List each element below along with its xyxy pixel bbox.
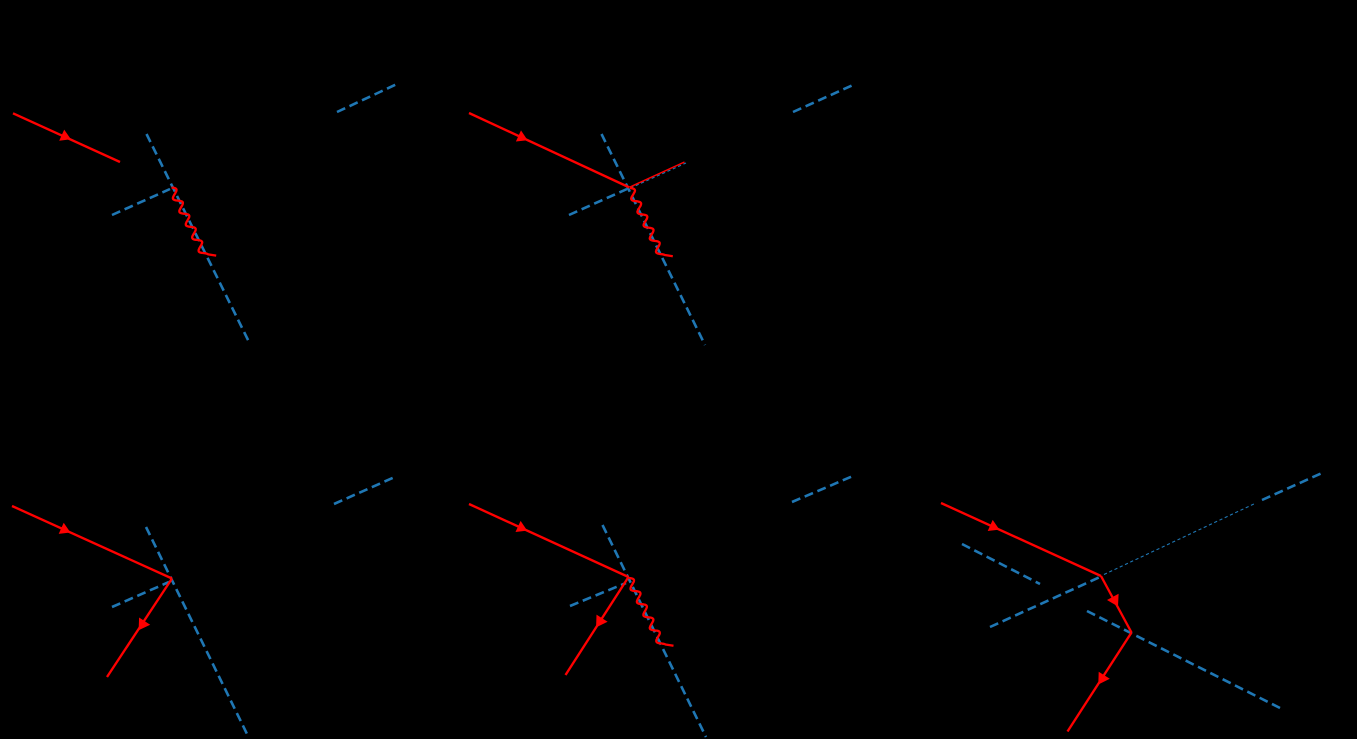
wire: P3 incident beam: [12, 506, 172, 579]
wire: P2 incident beam: [469, 113, 630, 188]
node: P5 internal arrowhead: [1107, 594, 1119, 607]
wire: P4 incident beam: [469, 504, 629, 577]
wire: P5 upper-left parallel dashed: [962, 544, 1040, 584]
node: P1 incident arrowhead: [59, 130, 71, 141]
node: P5 exit arrowhead: [1098, 672, 1110, 685]
wire: P4 reflected beam: [566, 577, 629, 675]
wire: P2 phonon wavy line: [630, 188, 673, 256]
wire: P5 exit beam: [1068, 633, 1132, 732]
node: P4 reflected arrowhead: [596, 615, 608, 628]
wire: P1 phonon wavy line: [172, 188, 217, 256]
node: P2 incident arrowhead: [516, 130, 528, 141]
node: P4 incident arrowhead: [516, 521, 528, 532]
wire: P5 far dashed segment: [1262, 473, 1322, 500]
wire: P4 shallow dashed tail: [570, 583, 626, 606]
node: P3 incident arrowhead: [59, 523, 71, 534]
wire: P1 shallow dashed tail: [112, 189, 170, 215]
wire: P1 incident beam: [13, 113, 120, 162]
wire: P3 steep dashed axis: [146, 527, 248, 736]
wire: P2 thin dashed under scattered beam: [631, 163, 687, 188]
wire: P5 incident beam: [941, 503, 1101, 576]
wire: P5 thin dashed reflection axis: [1104, 503, 1256, 575]
wire: P5 internal beam: [1101, 576, 1132, 633]
node: P3 reflected arrowhead: [139, 618, 151, 631]
node: P5 incident arrowhead: [988, 520, 1000, 531]
wire: P5 lower-right parallel dashed: [1087, 611, 1280, 708]
wire: P2 steep dashed axis: [602, 134, 706, 345]
wire: P1 far dashed segment: [337, 84, 397, 112]
wire: P4 phonon wavy line: [629, 578, 674, 646]
wire: P4 far dashed segment: [792, 476, 853, 502]
wire: P3 reflected beam: [107, 579, 172, 678]
wire: P5 dashed toward junction: [990, 577, 1100, 627]
wire: P3 far dashed segment: [334, 476, 397, 504]
wire: P2 far dashed segment: [793, 85, 853, 112]
wire: P3 shallow dashed tail: [112, 582, 169, 607]
wire: P1 steep dashed axis: [147, 134, 250, 343]
wire: P2 scattered thin beam: [630, 162, 685, 187]
wire: P2 shallow dashed tail: [569, 189, 627, 215]
wire: P4 steep dashed axis: [603, 525, 707, 737]
